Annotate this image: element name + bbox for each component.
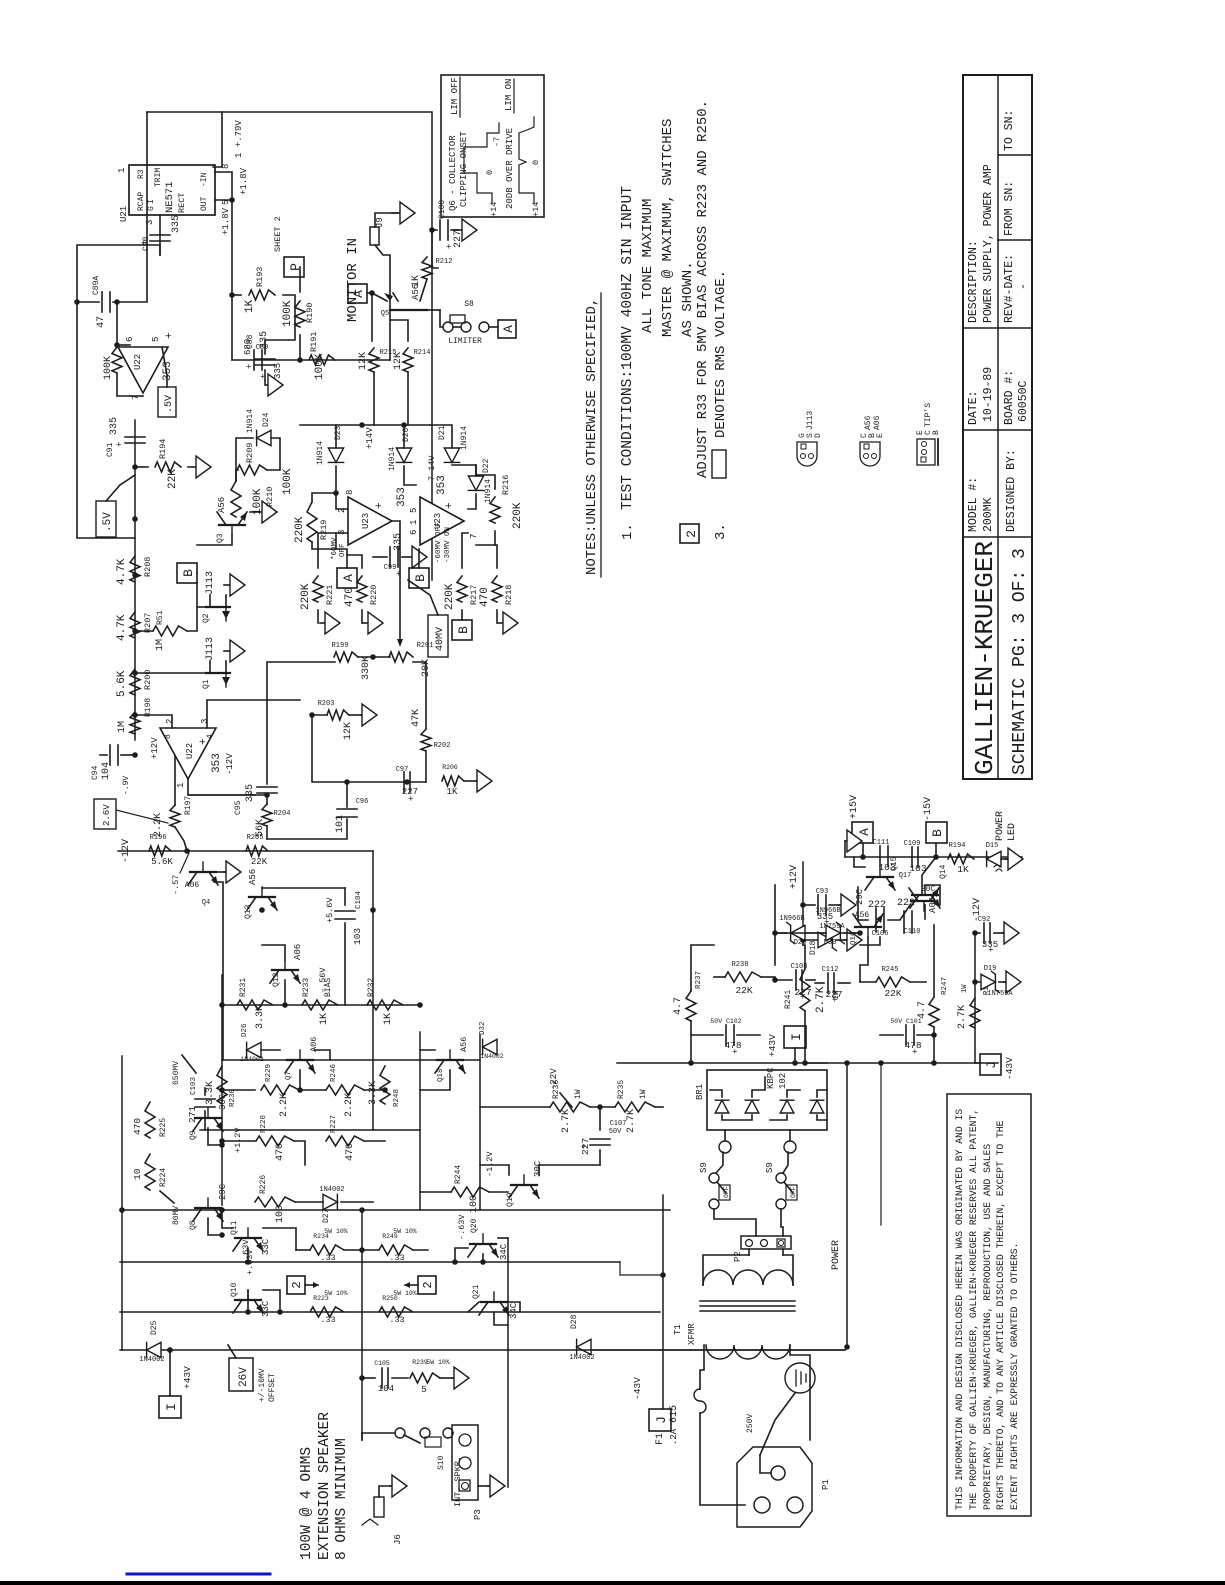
capacitor C89 680 [255, 364, 275, 366]
resistor R217 220K [457, 576, 467, 602]
svg-text:.5V: .5V [102, 512, 114, 532]
svg-text:100K: 100K [314, 353, 326, 380]
ground R221 [317, 610, 319, 623]
svg-text:C92: C92 [978, 916, 991, 924]
bridge AC pins [719, 1141, 731, 1153]
svg-text:Q12: Q12 [272, 972, 281, 987]
svg-text:R204: R204 [274, 810, 291, 818]
svg-text:A06: A06 [293, 944, 303, 960]
svg-text:40MV: 40MV [435, 627, 446, 651]
boxed 2 a [287, 1276, 305, 1294]
svg-text:R235: R235 [617, 1080, 626, 1099]
resistor R193 1K [249, 290, 275, 300]
ground C89 [264, 370, 266, 385]
ground R206 [464, 780, 476, 782]
svg-text:Q18: Q18 [437, 1068, 445, 1082]
svg-text:22K: 22K [884, 988, 901, 999]
capacitor C109 103 [911, 847, 913, 867]
svg-text:R3: R3 [137, 169, 146, 179]
svg-text:50V C101: 50V C101 [890, 1018, 921, 1025]
boxed J -43V out [649, 1409, 671, 1431]
wire Q5 collector chain [432, 230, 438, 268]
svg-text:Q13: Q13 [244, 904, 253, 919]
input chain rail [134, 420, 136, 740]
svg-text:A: A [341, 574, 356, 582]
svg-text:+14V: +14V [365, 427, 375, 449]
svg-text:D25: D25 [150, 1320, 159, 1335]
svg-text:KBPC: KBPC [766, 1067, 776, 1089]
inset box Q6 collector clipping [441, 75, 544, 217]
resistor R203 12K [327, 710, 349, 720]
svg-text:R202: R202 [434, 742, 451, 750]
transistor Q11 33C [235, 1237, 261, 1239]
svg-text:R212: R212 [436, 258, 453, 266]
transistor Q10 33C [235, 1299, 261, 1301]
svg-text:I: I [164, 1403, 179, 1411]
svg-text:222: 222 [897, 898, 915, 909]
svg-text:22K: 22K [735, 985, 752, 996]
svg-text:1N4002: 1N4002 [569, 1354, 594, 1362]
rail +12V [802, 862, 804, 945]
svg-text:29C: 29C [855, 888, 865, 905]
svg-text:DATE:: DATE: [967, 390, 980, 425]
resistor R199 330K [334, 652, 358, 662]
svg-text:B: B [456, 626, 471, 634]
resistor R234 .33 5W [310, 1245, 344, 1255]
svg-text:+: + [374, 502, 386, 509]
rail +43V [617, 1062, 998, 1064]
resistor R237 4.7 [686, 991, 696, 1021]
svg-text:5W 10%: 5W 10% [393, 1290, 417, 1297]
capacitor C90 [159, 215, 161, 255]
wire bridge down [806, 1062, 827, 1064]
svg-text:DESCRIPTION:: DESCRIPTION: [967, 240, 980, 323]
svg-text:5.6K: 5.6K [116, 670, 128, 697]
wire predriver vertical [222, 1059, 480, 1061]
svg-text:271: 271 [187, 1106, 198, 1123]
svg-text:LIM OFF: LIM OFF [450, 77, 460, 115]
svg-text:C91: C91 [106, 442, 115, 457]
svg-text:Q19: Q19 [506, 1192, 515, 1207]
svg-text:-.9V: -.9V [122, 776, 131, 795]
svg-text:P3: P3 [473, 1509, 483, 1520]
svg-text:S10: S10 [437, 1455, 446, 1470]
svg-text:F1: F1 [655, 1433, 666, 1445]
svg-text:*60MV: *60MV [331, 537, 339, 560]
svg-text:104: 104 [101, 762, 112, 780]
wire Q13 to C104 [262, 887, 345, 889]
svg-text:650MV: 650MV [172, 1061, 181, 1085]
svg-text:101: 101 [335, 815, 346, 833]
output wire U22 [188, 779, 255, 795]
wire Q19 to rails [539, 1165, 600, 1175]
svg-text:1N914: 1N914 [460, 426, 469, 450]
svg-text:Q8: Q8 [189, 1220, 198, 1230]
svg-text:353: 353 [436, 475, 448, 495]
svg-text:R248: R248 [393, 1089, 401, 1107]
svg-text:OFF: OFF [790, 1186, 797, 1198]
svg-text:4.7K: 4.7K [116, 558, 128, 585]
resistor R228 470 [256, 1136, 294, 1146]
svg-text:4.7K: 4.7K [116, 614, 128, 641]
U23a output to R201 [392, 521, 400, 640]
svg-text:C97: C97 [396, 766, 409, 774]
svg-text:10: 10 [132, 1168, 143, 1180]
svg-text:EXTENSION SPEAKER: EXTENSION SPEAKER [317, 1412, 333, 1560]
transistor Q12 A06 [272, 969, 298, 971]
ground R194 [188, 466, 196, 468]
svg-text:MODEL #:: MODEL #: [967, 477, 980, 532]
svg-text:7-14V: 7-14V [427, 455, 437, 481]
resistor R212 1K [422, 257, 432, 279]
transformer core [700, 1300, 795, 1302]
resistor R238 22K [725, 972, 761, 982]
svg-text:2: 2 [421, 1281, 435, 1288]
transistor Q8 29C [195, 1207, 221, 1209]
resistor R250 .33 5W [379, 1307, 413, 1317]
svg-text:1N914: 1N914 [388, 447, 397, 471]
svg-text:1N4002: 1N4002 [139, 1356, 164, 1364]
transformer T1 primary [706, 1345, 790, 1359]
svg-text:B: B [930, 829, 945, 837]
svg-text:R206: R206 [442, 764, 458, 771]
svg-text:1K: 1K [244, 299, 256, 313]
A B rail vertical [845, 856, 1022, 858]
svg-text:1N914: 1N914 [246, 409, 255, 433]
svg-text:227: 227 [794, 987, 811, 998]
svg-text:-IN: -IN [200, 172, 209, 187]
svg-text:A06: A06 [873, 415, 882, 430]
ground D18 [845, 939, 847, 941]
svg-text:T1: T1 [673, 1324, 683, 1335]
svg-text:R51: R51 [156, 610, 165, 625]
wire R204 down [266, 826, 268, 839]
boxed A u23a [337, 568, 357, 588]
svg-text:R203: R203 [318, 700, 335, 708]
capacitor C103 271 [204, 1088, 206, 1095]
svg-text:J: J [984, 1061, 999, 1069]
svg-text:+5.6V: +5.6V [325, 897, 335, 923]
wire Q17 to B rail [922, 857, 936, 895]
ground R203 [349, 714, 362, 716]
legend TIP pinout [917, 439, 938, 465]
svg-text:335: 335 [982, 940, 998, 950]
svg-text:+1.8V: +1.8V [239, 167, 249, 195]
svg-text:-43V: -43V [1004, 1057, 1015, 1080]
diode D25 1N4002 [147, 1342, 161, 1357]
resistor R225 470 [145, 1102, 155, 1138]
rail top cross [121, 1210, 123, 1350]
svg-text:3: 3 [200, 719, 210, 724]
svg-text:R241: R241 [784, 990, 793, 1009]
resistor R210 100K [231, 481, 241, 517]
svg-text:Q9: Q9 [189, 1130, 198, 1140]
svg-text:220K: 220K [444, 583, 456, 610]
JFET Q2 J113 [206, 606, 230, 608]
svg-text:353: 353 [162, 361, 174, 381]
svg-text:C104: C104 [355, 890, 363, 909]
wire R203 top link [311, 714, 313, 781]
resistor R195 2.7K 1W [970, 998, 980, 1028]
svg-text:P2: P2 [733, 1251, 743, 1262]
svg-text:DENOTES RMS VOLTAGE.: DENOTES RMS VOLTAGE. [713, 270, 729, 438]
transistor Q17 30C [911, 900, 937, 902]
ground at J9 [392, 212, 400, 214]
transistor Q3 A56 [219, 524, 245, 526]
legend J113 pinout [797, 442, 817, 466]
svg-text:U22: U22 [133, 354, 143, 370]
jack J6 [374, 1497, 384, 1517]
svg-text:C99: C99 [384, 564, 397, 572]
svg-text:R220: R220 [369, 585, 379, 605]
svg-text:D15: D15 [986, 842, 999, 850]
svg-text:200MK: 200MK [982, 497, 995, 532]
svg-text:C103: C103 [190, 1076, 198, 1095]
wire Q5 base rail [440, 310, 443, 327]
rail out4 [120, 1349, 845, 1351]
svg-text:J: J [654, 1416, 669, 1424]
svg-text:D: D [814, 433, 823, 438]
svg-text:A56: A56 [411, 284, 421, 300]
capacitor C94 104 [109, 745, 111, 765]
rail -12V [974, 933, 976, 1063]
transistor Q18 A56 [437, 1059, 463, 1061]
zener D29 1N966B [787, 922, 805, 943]
svg-text:A56: A56 [864, 415, 873, 430]
svg-text:+: + [245, 364, 255, 369]
svg-text:A06: A06 [928, 897, 938, 913]
resistor R200 5.6K [130, 669, 140, 695]
capacitor C100 [432, 229, 437, 231]
svg-text:470: 470 [345, 1143, 356, 1161]
boxed B -15V [926, 822, 947, 843]
svg-text:100: 100 [275, 1205, 286, 1223]
svg-text:R227: R227 [330, 1115, 338, 1133]
resistor R207 4.7K [130, 612, 140, 638]
svg-text:Q7: Q7 [285, 1071, 293, 1080]
svg-text:R205: R205 [247, 834, 264, 842]
resistor R205 22K [246, 846, 268, 856]
svg-text:C110: C110 [904, 928, 921, 936]
svg-text:XFMR: XFMR [687, 1323, 697, 1345]
svg-text:-15V: -15V [923, 797, 934, 821]
svg-text:103: 103 [352, 928, 363, 945]
svg-text:4: 4 [206, 734, 215, 739]
capacitor C93 335 [803, 904, 815, 906]
zener D18 1N759A [803, 939, 818, 941]
AC plug P1 [737, 1447, 812, 1527]
svg-text:1K: 1K [957, 864, 969, 875]
boxed A +15V [852, 822, 873, 843]
wire Q20 base [482, 1254, 484, 1262]
wire Q9 Q8 emitters [208, 1128, 222, 1145]
boxed J -43V [980, 1054, 1001, 1075]
svg-text:Q21: Q21 [472, 1284, 481, 1299]
ground C93 [839, 904, 841, 906]
svg-text:+/-10MV: +/-10MV [258, 1368, 267, 1402]
capacitor C99 335 [389, 547, 391, 567]
C105 R239 chain [359, 1375, 365, 1381]
svg-text:+: + [115, 442, 125, 447]
wire pin8 pin5 [215, 172, 232, 200]
svg-text:2: 2 [684, 530, 699, 538]
earth ground [785, 1363, 815, 1393]
svg-text:1M: 1M [117, 721, 128, 733]
svg-text:C105: C105 [374, 1360, 390, 1367]
resistor R208 4.7K [130, 556, 140, 582]
svg-text:227: 227 [580, 1138, 591, 1155]
svg-text:5: 5 [151, 337, 161, 342]
wire pin1 to rail [213, 112, 222, 167]
connector P3 [452, 1425, 478, 1500]
capacitor C102 478 50V [725, 1025, 727, 1045]
svg-text:D28: D28 [570, 1314, 579, 1329]
svg-text:1N914: 1N914 [484, 479, 493, 503]
resistor R230 3.3K [217, 1066, 227, 1104]
svg-text:J113: J113 [205, 637, 216, 661]
svg-text:Q6 - COLLECTOR: Q6 - COLLECTOR [448, 135, 458, 211]
bridge diode 2 [745, 1100, 759, 1113]
legend A56 A06 pinout [860, 442, 880, 466]
capacitor C88 [253, 350, 255, 370]
svg-text:29C: 29C [218, 1183, 228, 1200]
capacitor C97 [403, 772, 405, 792]
svg-text:PROPRIETARY, DESIGN, MANUFACTU: PROPRIETARY, DESIGN, MANUFACTURING, REPR… [982, 1144, 993, 1510]
resistor R221 220K [313, 576, 323, 602]
diode D20 1N914 [396, 448, 411, 462]
svg-text:1N914: 1N914 [316, 441, 325, 465]
transistor Q21 34C [481, 1301, 507, 1303]
svg-text:R230: R230 [229, 1088, 237, 1107]
svg-text:S9: S9 [699, 1162, 709, 1173]
transformer primary bottom to plug [790, 1345, 810, 1440]
svg-text:1: 1 [176, 783, 186, 788]
resistor R209 100K [237, 465, 267, 475]
svg-text:12K: 12K [358, 352, 369, 370]
svg-text:Q1: Q1 [202, 679, 211, 689]
ground Q4 [216, 871, 224, 873]
svg-text:R201: R201 [417, 642, 434, 650]
svg-text:50V C102: 50V C102 [710, 1018, 741, 1025]
svg-text:8 OHMS MINIMUM: 8 OHMS MINIMUM [334, 1438, 350, 1560]
svg-text:C111: C111 [873, 839, 890, 847]
wires predriver [222, 1089, 255, 1091]
wire minus43 feed [846, 1063, 848, 1347]
svg-text:D30: D30 [824, 939, 837, 947]
svg-text:D22: D22 [482, 458, 491, 473]
svg-text:RIGHTS THERETO, AND TO ANY ART: RIGHTS THERETO, AND TO ANY ARTICLE DISCL… [995, 1120, 1006, 1510]
svg-text:1K: 1K [319, 1013, 330, 1025]
svg-text:1N4002: 1N4002 [240, 1056, 264, 1063]
svg-text:G: G [147, 206, 156, 211]
svg-text:3.: 3. [713, 523, 729, 540]
svg-text:22K: 22K [167, 469, 179, 489]
JFET Q1 J113 [206, 672, 230, 674]
svg-text:100K: 100K [282, 300, 294, 327]
svg-text:470: 470 [344, 587, 356, 607]
resistor R218 470 [492, 576, 502, 602]
resistor R204 56K [262, 804, 272, 826]
svg-text:J6: J6 [393, 1534, 403, 1545]
wire Q4 emitter [214, 882, 223, 1060]
boxed I +43V out [159, 1396, 181, 1418]
svg-text:R199: R199 [332, 642, 349, 650]
svg-text:22K: 22K [251, 857, 268, 867]
svg-text:-22V: -22V [549, 1068, 559, 1090]
svg-text:335: 335 [109, 417, 120, 435]
svg-text:C100: C100 [438, 200, 447, 219]
svg-text:R229: R229 [265, 1064, 273, 1082]
resistor R236 2.7K 1W [550, 1102, 590, 1112]
svg-text:8: 8 [164, 734, 173, 739]
svg-text:C94: C94 [91, 765, 100, 780]
svg-text:SCHEMATIC PG: 3 OF: 3: SCHEMATIC PG: 3 OF: 3 [1010, 548, 1030, 775]
svg-text:+: + [198, 738, 210, 745]
ground AB rail top [844, 841, 846, 857]
svg-text:R225: R225 [159, 1118, 168, 1137]
svg-text:TIP'S: TIP'S [924, 403, 933, 427]
transistor Q4 A06 [190, 871, 216, 873]
svg-text:+12V: +12V [789, 865, 800, 889]
svg-text:0: 0 [531, 160, 541, 165]
svg-text:POWER SUPPLY, POWER AMP: POWER SUPPLY, POWER AMP [982, 164, 995, 323]
ground Q2 [224, 584, 230, 586]
wire Q16 Q14 mid [860, 937, 868, 982]
svg-text:1: 1 [117, 168, 127, 173]
svg-text:1K: 1K [383, 1013, 394, 1025]
wire Q15 collector to A [854, 857, 865, 867]
svg-text:5: 5 [421, 1385, 426, 1395]
capacitor C89A 47 [101, 292, 103, 312]
svg-text:470: 470 [479, 587, 491, 607]
svg-text:R207: R207 [143, 613, 153, 633]
bridge diode 3 [780, 1100, 794, 1113]
diode D26 1N4002 [247, 1042, 261, 1057]
diode D22 1N914 [468, 476, 483, 490]
svg-text:2.6V: 2.6V [102, 804, 112, 826]
svg-text:RECT: RECT [177, 193, 187, 213]
resistor R247 4.7 [929, 997, 939, 1027]
svg-text:Q4: Q4 [202, 899, 210, 907]
svg-text:227: 227 [402, 787, 418, 797]
op-amp U22 pins 1 2 3 [160, 728, 216, 779]
svg-text:1K: 1K [447, 787, 458, 797]
svg-text:D21: D21 [438, 425, 447, 440]
svg-text:227: 227 [825, 989, 842, 1000]
svg-text:8: 8 [345, 490, 355, 495]
rail out3 [120, 1311, 660, 1313]
svg-text:THIS INFORMATION AND DESIGN DI: THIS INFORMATION AND DESIGN DISCLOSED HE… [954, 1109, 965, 1510]
svg-text:D29: D29 [794, 939, 807, 947]
resistor R191 [309, 355, 335, 365]
svg-text:4.7: 4.7 [917, 1001, 928, 1019]
svg-text:335: 335 [245, 784, 256, 802]
svg-text:Q20: Q20 [470, 1218, 479, 1233]
boxed .5V [158, 387, 176, 417]
resistor R216 220K [490, 497, 500, 523]
ground P3 [478, 1485, 488, 1487]
resistor R192 100K [112, 347, 122, 373]
svg-text:-: - [1017, 283, 1030, 290]
resistor R219 220K [307, 502, 317, 542]
svg-text:OFFSET: OFFSET [268, 1373, 277, 1402]
resistor R246 2.2K [326, 1085, 364, 1095]
note 2 boxed [680, 524, 699, 543]
transformer T1 secondary [748, 1249, 750, 1255]
diode D32 1N4002 [483, 1039, 497, 1054]
svg-text:47K: 47K [411, 709, 422, 727]
svg-text:A: A [351, 290, 366, 298]
